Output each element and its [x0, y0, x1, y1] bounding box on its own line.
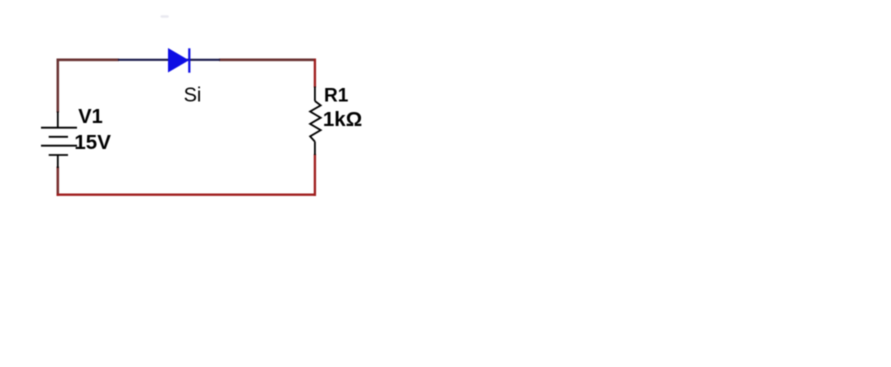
svg-text:R1: R1 [324, 86, 349, 107]
svg-text:V1: V1 [78, 106, 102, 128]
svg-text:15V: 15V [74, 131, 111, 154]
svg-text:Si: Si [184, 85, 202, 107]
svg-text:1kΩ: 1kΩ [323, 108, 362, 131]
